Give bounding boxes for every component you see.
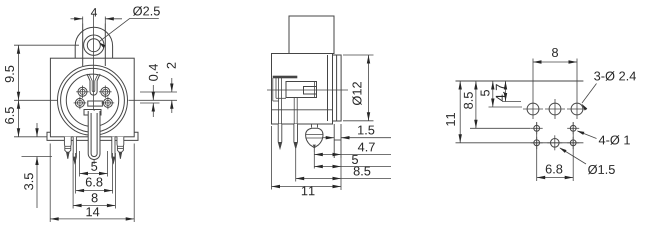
flange bottom extension for diameter 12: [343, 120, 374, 122]
vertical centerline of front view: [92, 14, 94, 110]
hole 1mm bottom-left crosshair: [531, 142, 543, 144]
body bottom extension left: [14, 136, 47, 138]
pin 2 circle bottom-left: [75, 98, 84, 107]
dimension 8 footprint text: [552, 48, 558, 57]
footprint column line right: [572, 122, 574, 149]
dimension 2 text: [167, 63, 176, 69]
side view contact block: [286, 82, 317, 98]
footprint back edge line: [456, 142, 584, 144]
side view pin 2 tip extension: [295, 149, 297, 182]
centerline through shield lug: [93, 110, 95, 164]
dimension 8 line: [73, 205, 115, 207]
mounting tab: [75, 27, 112, 58]
hole 1.5mm center: [551, 139, 560, 148]
side view flange face: [333, 55, 342, 121]
label 4x diameter 1 text: [599, 135, 630, 144]
tab slot line left: [82, 24, 84, 67]
big hole top edge extension: [502, 101, 521, 103]
pin tip extension line left: [22, 156, 53, 158]
dimension 5 footprint text: [481, 90, 490, 96]
side view contact step bracket: [272, 78, 274, 101]
center shield lug inner wall: [91, 113, 97, 157]
dimension 6.5 text: [5, 107, 14, 124]
keyway notch outer: [87, 74, 100, 95]
hole 1.5mm crosshair: [547, 142, 562, 144]
front view base skirt: [47, 132, 138, 140]
dimension 8.5 line: [296, 178, 391, 180]
solder pin leg outer-left: [64, 137, 71, 159]
side view barrel root line: [327, 55, 329, 121]
front centerline horizontal left: [14, 99, 57, 101]
label 3x diameter 2.4 text: [594, 71, 636, 80]
extension lines for dimension 6.8: [75, 153, 77, 194]
hole 1mm top-right crosshair: [567, 127, 579, 129]
front centerline horizontal right: [129, 99, 178, 101]
side view contact block inner socket: [304, 87, 317, 95]
dimension 4.7 footprint text: [496, 84, 505, 101]
hole 1mm bottom-right: [570, 140, 576, 146]
solder pin leg inner-left: [73, 137, 76, 163]
side view horizontal centerline: [267, 89, 348, 91]
footprint column line left: [536, 122, 538, 149]
dimension 9.5 text: [5, 66, 14, 83]
dimension 4 line: [71, 18, 83, 20]
dimension 6.8 footprint text: [546, 164, 563, 173]
mounting hole 2.5mm: [87, 39, 100, 52]
extension lines for dimension 8 footprint: [532, 59, 534, 100]
side view pin 2: [294, 124, 298, 149]
side view shield lug barrel: [306, 128, 323, 148]
side view mounting peg: [333, 124, 335, 158]
dimension 1.5 line: [322, 137, 334, 139]
flange top extension for diameter 12: [343, 54, 374, 56]
side view contact step bracket inner: [275, 78, 277, 98]
footprint front edge line: [456, 80, 584, 82]
side view pin 1: [278, 124, 282, 149]
hole 1mm top-left crosshair: [531, 127, 543, 129]
solder pin leg outer-right: [117, 137, 124, 159]
dimension 1.5 text: [358, 126, 374, 135]
dimension 14 text: [86, 207, 99, 216]
dimension 8 text: [92, 193, 98, 202]
hole 2.4mm left: [527, 103, 539, 115]
hole 2.4mm left crosshair: [523, 108, 543, 110]
hole 2.4mm right crosshair: [567, 108, 587, 110]
shield outer circle 12mm: [58, 65, 128, 135]
extension lines for dimension 8: [72, 153, 74, 209]
side view ground strap thick bar: [273, 76, 297, 78]
extension lines for dimension 5: [79, 151, 81, 177]
lower pin row extension right: [140, 102, 160, 104]
dimension diameter 12 line: [368, 55, 370, 121]
hole 1mm bottom-left: [534, 140, 540, 146]
upper pin row extension right: [140, 91, 177, 93]
tab slot line right: [104, 24, 106, 67]
dimension 3.5 text: [24, 173, 33, 190]
side view shield pin tip extension: [313, 152, 315, 169]
dimension 8 footprint line: [533, 61, 577, 63]
dimension 11 footprint text: [446, 113, 455, 126]
label diameter 2.5 leader: [99, 19, 159, 42]
label diameter 2.5 text: [133, 6, 160, 15]
pin 1 circle bottom-right: [103, 98, 112, 107]
hole 1mm top-right: [570, 125, 576, 131]
hole center extension line left: [14, 44, 79, 46]
side view body outline: [272, 54, 333, 125]
side view shield lug crimp rings: [306, 134, 323, 136]
dimension 4.7 footprint line: [505, 81, 507, 102]
side view flange front line: [336, 55, 338, 121]
dimension 11 line side view: [272, 186, 342, 188]
extension lines for dimension 14: [49, 144, 51, 223]
label 4x diameter 1 leader: [578, 131, 597, 139]
pin 3 circle top-right: [101, 87, 110, 96]
side view pin 2 internal leads: [293, 98, 295, 125]
dimension 5 text side view: [352, 155, 358, 164]
dimension 6.8 line: [76, 190, 113, 192]
keyway notch inner: [89, 75, 98, 92]
dimension 5 text: [91, 162, 97, 171]
dimension 4 text: [91, 8, 97, 16]
dimension 4.7 line: [314, 154, 391, 156]
dimension 3.5 line: [36, 123, 38, 137]
hole 1mm bottom-right crosshair: [567, 142, 579, 144]
hole 2.4mm center: [549, 103, 561, 115]
side view shield lug neck: [311, 124, 313, 128]
side view shield lug tip: [313, 145, 316, 148]
insulator face circle: [66, 74, 118, 126]
pin 4 circle top-left: [78, 87, 87, 96]
mounting hole boss circle: [84, 35, 104, 55]
center key slot: [88, 101, 103, 106]
dimension 5 line side view: [314, 166, 391, 168]
dimension 11 text side view: [302, 186, 315, 195]
dimension 14 line: [50, 218, 134, 220]
label diameter 1.5 text: [588, 165, 615, 174]
side view body left extension: [271, 126, 273, 190]
dimension 6.5 line: [18, 100, 20, 137]
dimension 4 extension lines: [82, 17, 84, 24]
side view right reference extension line: [340, 158, 342, 190]
hole 2.4mm center crosshair: [545, 108, 565, 110]
dimension 8.5 footprint text: [464, 92, 473, 109]
dimension 5 footprint line: [492, 81, 494, 107]
dimension 6.8 footprint line: [537, 177, 574, 179]
center shield lug U-shaped: [88, 111, 100, 160]
dimension 4.7 text: [358, 143, 375, 152]
dimension 2 line: [171, 78, 173, 92]
lower rectangular slot: [84, 110, 101, 116]
label 3x diameter 2.4 leader: [582, 84, 597, 104]
dimension 0.4 text: [149, 64, 158, 81]
row2 extension line left: [470, 127, 531, 129]
side view internal shelf line: [272, 109, 333, 111]
dimension diameter 12 text: [352, 82, 361, 105]
big hole center extension: [489, 106, 523, 108]
label diameter 1.5 leader: [560, 148, 586, 164]
side view pin 1 internal leads: [278, 78, 280, 124]
dimension 8.5 footprint line: [475, 81, 477, 128]
hole 1mm top-left: [534, 125, 540, 131]
hole 2.4mm right: [571, 103, 583, 115]
solder pin leg inner-right: [112, 137, 115, 163]
dimension 5 line: [80, 173, 108, 175]
front view body outline: [50, 58, 134, 137]
dimension 6.8 text: [86, 177, 103, 186]
dimension 9.5 line: [18, 45, 20, 100]
dimension 0.4 line: [152, 85, 154, 100]
side view contact inner edge: [314, 82, 316, 98]
dimension 8.5 text: [354, 166, 371, 175]
side view mounting tab: [289, 16, 334, 54]
dimension 11 footprint line: [459, 81, 461, 143]
shield ring circle: [61, 68, 125, 132]
extension lines for dimension 6.8 footprint: [536, 149, 538, 182]
